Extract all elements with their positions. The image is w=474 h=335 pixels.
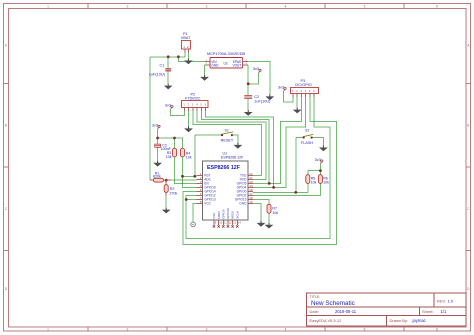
wire U2 GND to ground [204,65,206,75]
node GPIO0 [294,191,297,194]
svg-text:GND: GND [239,202,247,206]
ground (P1) [184,59,193,65]
ground (EPAD) [265,94,274,100]
svg-text:GPIO10: GPIO10 [226,208,230,219]
wire P3 pin2 to ground [296,97,298,108]
left pin stubs [197,175,203,203]
wire R2 bottom to ground [165,196,167,208]
wire R5 bottom [307,183,309,192]
svg-text:ESP8266 12F: ESP8266 12F [221,156,244,160]
node R5 R6 3v3 [319,169,322,172]
node U2 VIN branch [177,55,180,58]
node 3v3 rail C3 [156,137,159,140]
capacitor C2 [244,95,271,103]
svg-text:Sheet:: Sheet: [422,309,434,314]
connector P3 I2C/GPIO [291,79,319,97]
wire RST row [183,175,197,177]
wire GPIO5 row to P3 pin3 [253,97,301,183]
svg-text:ESP8266 12F: ESP8266 12F [207,165,241,171]
node VOUT 3v3 [247,82,250,85]
svg-text:10k: 10k [311,181,317,185]
wire RXD row [253,178,266,180]
resistor R1 820k [150,171,171,182]
svg-text:VCC: VCC [204,202,211,206]
wire P2 pin3 to chip TXD [193,111,262,176]
svg-text:5: 5 [364,5,366,9]
wire C1 bottom to ground [167,71,169,83]
power flag 3v3 E [278,85,286,91]
wire GPIO0 row [253,191,308,193]
svg-text:S2: S2 [305,128,309,132]
svg-text:Drawn By:: Drawn By: [390,318,408,323]
svg-text:S1: S1 [225,129,229,133]
node ADC divider [165,179,168,182]
wire left rail vertical to R1 [149,57,151,180]
svg-text:6: 6 [436,328,438,332]
svg-text:10k: 10k [166,155,172,159]
svg-text:10k: 10k [186,156,192,160]
svg-text:1uF(10U): 1uF(10U) [254,100,271,104]
right pin names [235,174,247,206]
IC U1 ESP8266 12F [197,152,254,228]
wire ADC row [171,179,197,181]
svg-text:CS0: CS0 [212,213,216,219]
svg-text:FTDI/I2C: FTDI/I2C [185,96,201,100]
svg-text:2: 2 [127,328,129,332]
svg-text:GND: GND [211,63,219,67]
ground (C3) [153,161,162,167]
svg-text:Date:: Date: [310,309,320,314]
border ticks right [466,84,471,251]
wire C1 top [167,57,169,69]
wire U2 VOUT down to C2 [247,65,249,96]
resistor R6 10k [318,175,329,185]
svg-text:10k: 10k [272,211,278,215]
svg-text:1.0: 1.0 [448,299,454,304]
capacitor C3 [155,144,172,152]
svg-text:820k: 820k [153,175,161,179]
border ticks bottom [88,327,404,331]
power flag 3v3 A [253,67,261,73]
wire S2 vertical to GPIO0 row [295,138,297,193]
svg-text:15: 15 [249,200,253,204]
left pin numbers [200,172,202,204]
button S2 FLASH [301,128,313,145]
bottom pin numbers [215,221,242,225]
wire R6 bottom [319,183,321,195]
svg-text:U2: U2 [224,61,228,65]
svg-text:RESET: RESET [221,139,234,143]
ground (U1 GND) [257,221,266,227]
node GPIO13 join [185,198,188,201]
wire S1 right to ground [232,135,238,143]
svg-text:MOSI: MOSI [231,211,235,219]
svg-text:5: 5 [364,328,366,332]
resistor R3 10k [166,148,177,159]
svg-text:MCP1700A-3302E/DB: MCP1700A-3302E/DB [207,52,245,56]
ground (P2 pin2) [184,126,193,132]
ground (S1) [234,143,243,149]
wire S1 left lead [195,134,222,136]
right pin numbers [249,172,253,204]
wire VCC row to port [193,204,196,222]
wire GPIO15 row to R7 [253,200,269,205]
wire P2 pin5 to GPIO5 row [201,111,269,184]
node C1/VBAT [167,55,170,58]
wire R5 R6 3v3 rail [308,171,321,175]
wire VBAT rail top [150,56,185,58]
svg-text:4: 4 [285,5,287,9]
svg-text:I2C/GPIO: I2C/GPIO [295,83,312,87]
wire P2 pin4 to chip RXD [197,111,266,180]
power flag 3v3 C [315,158,323,164]
svg-text:REV:: REV: [437,299,446,304]
svg-text:2018-06-11: 2018-06-11 [335,309,357,314]
svg-text:jaymac: jaymac [412,318,426,323]
wire P3 pin1 to 3v3 flag E [284,91,293,102]
wire GPIO4 row to P3 pin4 [253,97,305,187]
wire P2 pin2 to ground [188,111,190,127]
ground (R2) [162,208,171,214]
svg-text:6: 6 [436,5,438,9]
wire C3 top [157,138,159,144]
wire 3v3 rail to R4 top [158,138,183,148]
svg-text:2: 2 [127,5,129,9]
svg-text:C1: C1 [160,64,165,68]
wire S2 right to ground [312,138,323,146]
ground (C1) [164,84,173,90]
wire GPIO2 row [253,194,320,196]
ground (P3 pin2) [293,108,302,114]
wire VOUT node to 3v3 flag A [248,73,258,84]
svg-text:FLASH: FLASH [301,141,313,145]
bottom no-connect X marks [213,225,239,227]
svg-text:GPIO9: GPIO9 [221,209,225,219]
wire C2 bottom to ground [247,99,249,110]
resistor R4 10k [181,148,192,160]
ground (R7) [265,223,274,229]
connector P2 FTDI/I2C [182,92,209,110]
svg-text:4: 4 [285,328,287,332]
border ticks top [88,4,404,9]
wire GPIO12 wrap to P3 pin6 [186,97,330,239]
wire P1 pin1 leg [184,53,186,57]
power flag 3v3 D [152,123,160,129]
wire C3 bottom to ground [157,147,159,160]
svg-text:1: 1 [47,5,49,9]
bottom pin names (vertical) [212,208,239,219]
svg-text:New Schematic: New Schematic [311,300,355,307]
wire GPIO13 row to node [186,199,196,201]
ground (S2) [319,146,328,152]
svg-text:SCLK: SCLK [235,211,239,219]
node RST R4 [181,175,184,178]
wire P1 pin2 to ground [187,53,189,59]
wire RST node down to GPIO16 row [183,176,197,187]
wire 3v3 flag D stem [157,129,159,138]
svg-text:MISO: MISO [217,210,221,218]
wire VBAT to U2 VIN [178,57,204,62]
wire GPIO14 wrap to P3 pin5 [183,97,336,244]
resistor R5 10k [306,175,317,185]
svg-text:R4: R4 [186,151,191,155]
svg-text:1uF(10U): 1uF(10U) [149,72,166,76]
node GPIO5 [268,182,271,185]
border ticks left [4,84,9,251]
wire TXD row [253,174,261,176]
bottom pin stubs [214,220,237,225]
wire R7 bottom to ground [268,213,270,222]
resistor R7 10k [267,204,278,215]
wire U2 EPAD to ground [248,62,270,95]
wire GND row to ground [253,204,261,221]
wire S1 vertical to RST row [194,135,196,176]
regulator U2 MCP1700A-3302E/DB [205,52,249,68]
wire R3 top stem [174,138,176,148]
resistor R2 270k [164,180,177,196]
net port (VCC) [191,222,196,227]
wire P2 pin6 to GPIO4 row [206,111,274,188]
svg-text:3: 3 [206,328,208,332]
svg-text:B: B [467,124,469,128]
node GPIO4 [272,186,275,189]
wire R3 bottom to EN row [175,157,197,184]
svg-text:TITLE:: TITLE: [310,295,321,299]
svg-text:1: 1 [47,328,49,332]
svg-text:C2: C2 [254,95,259,99]
svg-text:10k: 10k [323,181,329,185]
svg-text:VBAT: VBAT [181,36,191,40]
svg-text:B: B [5,124,7,128]
wire 3v3 flag C stem [319,164,321,171]
button S1 RESET [221,129,234,143]
svg-text:1/1: 1/1 [441,309,447,314]
node 3v3 rail R3 [173,137,176,140]
left pin names [204,174,216,206]
svg-text:VOUT: VOUT [232,63,241,67]
svg-text:270k: 270k [170,191,178,195]
right pin stubs [248,175,253,203]
ground (U2 GND) [200,75,209,81]
ground (C2) [244,110,253,116]
wire S2 left lead [296,137,303,139]
power flag 3v3 B [165,103,173,109]
wire R4 bottom to RST node [182,157,184,176]
svg-text:EasyEDA V5.5.12: EasyEDA V5.5.12 [310,318,343,323]
svg-text:3: 3 [206,5,208,9]
wire P2 pin1 to 3v3 flag B [171,109,185,115]
node RST S1 [193,175,196,178]
connector P1 VBAT [181,32,191,53]
capacitor C1 [149,64,171,77]
title block [307,293,467,326]
